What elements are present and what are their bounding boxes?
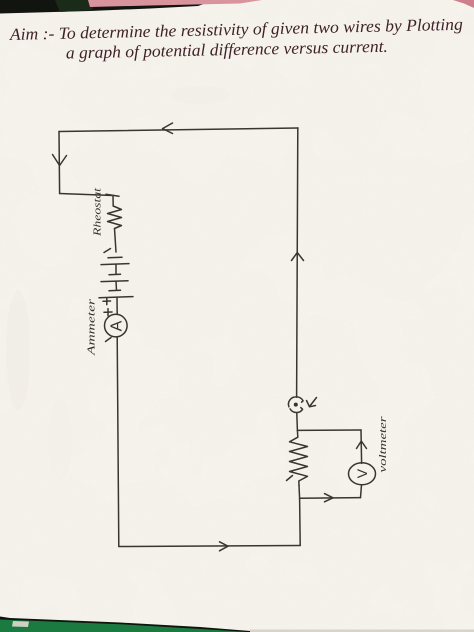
top-right pink blob xyxy=(453,0,474,8)
key K plug circle xyxy=(288,397,303,413)
svg-text:A: A xyxy=(108,320,125,331)
arrow up on voltmeter branch xyxy=(357,441,367,449)
battery cell 3 long plate xyxy=(99,297,133,298)
key center dot xyxy=(294,403,298,407)
wire parallel branch bottom xyxy=(300,497,361,500)
arrow down on left vertical xyxy=(53,155,67,166)
wire bottom xyxy=(119,546,300,547)
battery minus mark xyxy=(104,249,111,253)
battery cell 3 short plate xyxy=(109,289,121,292)
wire between cells 1-2 xyxy=(115,264,117,274)
wire right lower vertical xyxy=(299,498,302,545)
node junction bottom of parallel branch xyxy=(298,485,301,498)
label Rheostat xyxy=(93,187,104,238)
arrow left on top wire xyxy=(163,123,173,134)
arrow right on bottom wire xyxy=(220,542,229,551)
wire right upper vertical xyxy=(297,128,298,397)
wire rheostat to battery xyxy=(115,229,117,253)
wire left long vertical xyxy=(117,337,119,547)
rheostat zigzag xyxy=(108,206,122,229)
stray tick at resistor bottom xyxy=(287,476,293,481)
svg-text:Rheostat: Rheostat xyxy=(93,187,104,238)
bottom green notebook edge wedge xyxy=(0,617,474,632)
voltmeter V1 circle xyxy=(349,463,376,485)
voltmeter letter V xyxy=(354,468,370,478)
battery cell 2 long plate xyxy=(101,280,128,283)
wire battery to ammeter xyxy=(116,297,118,314)
wire voltmeter branch upper xyxy=(360,430,363,463)
wire top xyxy=(59,128,298,132)
svg-text:V: V xyxy=(354,468,370,478)
key label arrow K xyxy=(307,398,317,407)
battery cell 1 long plate xyxy=(101,264,129,265)
wire key to junction xyxy=(296,414,299,431)
wire voltmeter to bottom junction xyxy=(361,485,362,498)
top dark photo edge band xyxy=(0,0,215,14)
battery cell 2 short plate xyxy=(109,273,121,276)
top pink band xyxy=(88,0,262,7)
title handwriting line 2 xyxy=(66,37,388,63)
battery cell 1 short plate xyxy=(108,256,122,259)
ammeter minus mark xyxy=(106,338,112,342)
title handwriting line 1 xyxy=(9,15,463,44)
wire left upper vertical xyxy=(58,132,61,194)
arrow right on parallel bottom xyxy=(325,494,334,502)
svg-text:voltmeter: voltmeter xyxy=(378,415,389,472)
ammeter plus mark xyxy=(104,309,112,316)
arrow up on right vertical xyxy=(292,253,304,261)
node tick at rheostat top xyxy=(106,194,119,196)
battery plus mark xyxy=(103,298,111,305)
ammeter letter A xyxy=(108,320,125,331)
wire jog to rheostat xyxy=(60,194,114,207)
node junction top of parallel branch xyxy=(296,430,298,437)
svg-text:Ammeter: Ammeter xyxy=(87,298,98,357)
wire parallel branch top xyxy=(297,429,361,431)
ammeter A1 circle xyxy=(105,314,128,337)
resistor R zigzag xyxy=(290,437,308,485)
label Ammeter xyxy=(87,298,98,357)
wire between cells 2-3 xyxy=(115,281,118,290)
label voltmeter xyxy=(378,415,389,472)
